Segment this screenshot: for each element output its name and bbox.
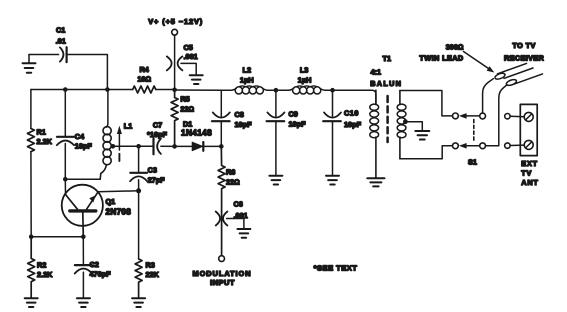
- svg-text:R4: R4: [140, 65, 150, 74]
- ground (C5): [190, 75, 203, 84]
- svg-text:C6: C6: [234, 200, 243, 209]
- capacitor C6 .001: [216, 200, 248, 256]
- node (collector / tank-bottom junction): [63, 177, 68, 182]
- svg-text:22K: 22K: [146, 270, 160, 279]
- wire (left rail, bus corner down to R1): [30, 90, 32, 129]
- svg-text:10pF: 10pF: [289, 120, 307, 129]
- wire (secondary bottom to S1): [400, 146, 453, 159]
- resistor R4 10ohm: [133, 65, 156, 93]
- screw terminal (top): [524, 112, 533, 121]
- svg-text:R3: R3: [146, 261, 155, 270]
- svg-text:*10pF: *10pF: [147, 130, 167, 139]
- node (bus junction at C4 branch): [63, 87, 68, 92]
- svg-text:C2: C2: [90, 260, 99, 269]
- svg-text:L2: L2: [243, 66, 252, 75]
- ground (balun primary): [367, 178, 384, 186]
- svg-text:C4: C4: [75, 132, 85, 141]
- switch S1, balun-side contact (bottom): [453, 143, 459, 149]
- svg-text:C7: C7: [153, 121, 162, 130]
- diode D1 1N4148: [181, 120, 212, 151]
- ground (C9): [269, 176, 282, 185]
- wire (bottom ext contact to screw): [510, 144, 524, 146]
- wire (node down to R3): [138, 191, 140, 259]
- node (D1/C8/R6 junction): [219, 144, 224, 149]
- svg-text:D1: D1: [183, 120, 192, 129]
- node (secondary center tap): [403, 119, 408, 124]
- svg-text:TWIN LEAD: TWIN LEAD: [419, 54, 463, 63]
- svg-text:Q1: Q1: [106, 197, 116, 206]
- label 300ohm TWIN LEAD with callout arrow: [419, 43, 494, 73]
- svg-text:*SEE TEXT: *SEE TEXT: [314, 264, 358, 273]
- node (C10 junction): [330, 88, 335, 93]
- capacitor C4 10pF: [57, 132, 93, 151]
- ground (top left, for C1): [23, 55, 36, 73]
- svg-text:27pF: 27pF: [148, 176, 166, 185]
- wire (bus, V+ node to C8 corner): [175, 89, 222, 91]
- svg-text:TO TV: TO TV: [512, 41, 535, 50]
- capacitor C3 27pF: [130, 146, 165, 191]
- wire (bus, R4 to V+ node): [156, 89, 175, 91]
- inductor L3 1uH: [276, 66, 333, 95]
- svg-text:22Ω: 22Ω: [226, 178, 240, 187]
- wire (bus node down to C4): [64, 90, 66, 136]
- svg-text:TV: TV: [521, 169, 532, 178]
- wire (tap to C7 / C3 node): [114, 145, 153, 147]
- L1 tuning arrow: [117, 122, 132, 162]
- label TO TV RECEIVER: [504, 41, 544, 63]
- V+ supply terminal: [148, 17, 203, 90]
- wire (main V+ bus, left segment): [31, 89, 133, 91]
- svg-text:10pF: 10pF: [75, 142, 93, 151]
- twin lead ribbon (conductor lines): [498, 63, 543, 84]
- svg-text:L1: L1: [124, 122, 133, 131]
- switch S1, balun-side contact (top): [453, 113, 459, 119]
- resistor R6 22ohm: [218, 146, 240, 211]
- svg-text:470pF: 470pF: [90, 270, 112, 279]
- node (L1 tap): [111, 144, 116, 149]
- svg-text:C10: C10: [344, 109, 359, 118]
- resistor R1 2.2K: [27, 128, 52, 152]
- svg-text:INPUT: INPUT: [210, 278, 235, 287]
- svg-text:1μH: 1μH: [240, 76, 254, 85]
- node (R5/C7/D1 junction): [172, 144, 177, 149]
- wire (collector node down into Q1): [64, 179, 66, 194]
- svg-text:EXT: EXT: [521, 159, 538, 168]
- svg-text:1μH: 1μH: [298, 76, 312, 85]
- switch S1 wiper arrow (top): [459, 113, 480, 119]
- inductor L1 (tapped, tunable): [100, 90, 111, 180]
- wire (top ext contact to screw): [510, 115, 524, 117]
- wire (C10 node to balun primary): [333, 90, 376, 104]
- svg-text:4:1: 4:1: [371, 68, 382, 77]
- node (base / C2 junction): [81, 235, 86, 240]
- transformer core (dashed): [386, 96, 389, 142]
- svg-text:R5: R5: [180, 95, 189, 104]
- svg-text:10pF: 10pF: [235, 120, 253, 129]
- modulation input terminal: [192, 256, 251, 287]
- svg-text:C9: C9: [289, 110, 298, 119]
- svg-text:R1: R1: [37, 128, 46, 137]
- switch S1 wiper arrow (bottom): [459, 143, 480, 149]
- svg-text:L3: L3: [300, 66, 309, 75]
- ground (C10): [326, 176, 339, 185]
- svg-text:2.2K: 2.2K: [37, 270, 53, 279]
- capacitor C2 470pF: [75, 237, 111, 298]
- svg-text:2.2K: 2.2K: [37, 137, 53, 146]
- resistor R5 22ohm: [171, 90, 194, 146]
- wire (tank bottom horizontal to L1): [65, 178, 100, 180]
- resistor R2 2.2K: [28, 237, 53, 298]
- svg-text:.001: .001: [184, 52, 198, 61]
- svg-text:V+ (+5 −12V): V+ (+5 −12V): [148, 17, 203, 26]
- wire (emitter to node): [98, 191, 139, 192]
- node (emitter / C3 / R3 junction): [136, 188, 141, 193]
- node (C3 top junction): [136, 144, 141, 149]
- ground (R3): [132, 298, 145, 307]
- transformer T1 4:1 balun, primary winding: [370, 54, 402, 178]
- label EXT TV ANT: [521, 159, 538, 187]
- ground (balun tap): [415, 131, 429, 140]
- svg-text:C5: C5: [184, 43, 193, 52]
- node (R1/R2/base junction): [29, 235, 34, 240]
- svg-text:C8: C8: [235, 110, 244, 119]
- capacitor C8 10pF: [212, 90, 252, 146]
- svg-text:R6: R6: [226, 168, 235, 177]
- capacitor C9 10pF: [267, 90, 306, 175]
- wire (C6 to ground): [227, 219, 244, 229]
- switch S1 pole contact (bottom): [480, 143, 486, 149]
- node (C9 junction): [274, 88, 279, 93]
- wire (C4 to collector node): [64, 144, 66, 180]
- svg-text:R2: R2: [37, 261, 46, 270]
- svg-text:BALUN: BALUN: [370, 79, 402, 88]
- svg-text:10pF: 10pF: [344, 120, 362, 129]
- wire (tap to ground): [405, 122, 422, 131]
- capacitor C10 10pF: [323, 90, 361, 175]
- wire (left rail, R1 to base-divider node): [30, 152, 32, 237]
- svg-text:C1: C1: [56, 26, 65, 35]
- capacitor C7 *10pF: [147, 121, 167, 155]
- svg-text:ANT: ANT: [521, 178, 538, 187]
- svg-text:T1: T1: [383, 54, 392, 63]
- wire (secondary top to S1): [400, 91, 453, 116]
- svg-text:10Ω: 10Ω: [137, 75, 151, 84]
- wire (C5 to ground): [181, 63, 196, 74]
- svg-text:MODULATION: MODULATION: [192, 269, 251, 278]
- node (V+ / R5 junction): [172, 88, 177, 93]
- wire (twin lead conductor B down to bottom pole): [486, 85, 507, 146]
- switch S1 pole contact (top): [480, 113, 486, 119]
- svg-text:S1: S1: [468, 158, 477, 167]
- wire (C7 to R5/D1 node): [161, 145, 175, 147]
- twin lead ribbon (loop ends): [494, 72, 517, 86]
- transformer T1 secondary winding: [397, 91, 406, 159]
- ground (R2): [25, 298, 38, 307]
- transistor Q1 2N708: [62, 185, 132, 237]
- svg-text:300Ω: 300Ω: [446, 43, 464, 52]
- inductor L2 1uH: [221, 66, 276, 95]
- resistor R3 22K: [135, 259, 160, 298]
- wire (twin lead conductor A down to top pole): [483, 79, 494, 113]
- capacitor C1 .01: [56, 26, 67, 63]
- wire (ground to C1 left plate): [29, 54, 59, 56]
- switch S1 ext-ant contact (bottom): [505, 143, 510, 148]
- ground (C6): [237, 229, 250, 238]
- wire (base node to divider rail): [31, 236, 83, 238]
- screw terminal (bottom): [524, 140, 533, 149]
- wire (D1 cathode to C8/R6 node): [203, 145, 221, 147]
- svg-text:C3: C3: [148, 166, 157, 175]
- antenna terminal block: [520, 104, 537, 155]
- capacitor C5 .001: [167, 43, 198, 70]
- ground (C2): [77, 298, 90, 307]
- svg-text:RECEIVER: RECEIVER: [504, 54, 544, 63]
- switch S1 gang link (dashed): [473, 120, 475, 143]
- node (bus junction at C1 drop / L1 top): [105, 87, 110, 92]
- svg-text:.01: .01: [56, 37, 66, 46]
- svg-text:22Ω: 22Ω: [180, 105, 194, 114]
- svg-text:1N4148: 1N4148: [181, 129, 212, 138]
- svg-text:2N708: 2N708: [106, 208, 132, 217]
- wire (node to D1 anode): [175, 145, 193, 147]
- wire (C1 right plate to corner, down to bus): [67, 55, 108, 90]
- switch S1 ext-ant contact (top): [505, 114, 510, 119]
